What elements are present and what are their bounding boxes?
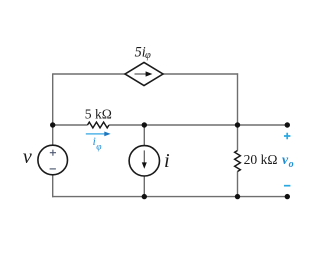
wire middle rail segment C to terminal xyxy=(238,124,288,126)
svg-text:φ: φ xyxy=(145,50,151,61)
wire middle rail segment B xyxy=(109,124,238,126)
wire top rail left segment xyxy=(53,73,125,75)
current arrow i_phi (cyan) shaft xyxy=(86,133,105,135)
node dot mid-mid xyxy=(142,122,147,127)
wire right vertical upper xyxy=(237,73,239,150)
svg-text:i: i xyxy=(93,136,96,148)
current source arrow head xyxy=(142,162,147,168)
voltage source plus sign xyxy=(50,150,56,156)
wire bottom rail xyxy=(52,196,287,198)
node dot right-mid xyxy=(235,122,240,127)
wire right vertical lower xyxy=(237,172,239,197)
wire middle vertical upper xyxy=(143,125,145,146)
svg-text:φ: φ xyxy=(96,142,101,152)
node dot right-bottom xyxy=(235,194,240,199)
dependent source arrow head xyxy=(146,71,153,76)
terminal minus (cyan) xyxy=(284,185,290,187)
voltage source V circle xyxy=(38,145,68,175)
node dot left-mid xyxy=(50,122,55,127)
wire left vertical upper xyxy=(52,73,54,145)
dependent source arrow shaft xyxy=(135,73,147,75)
svg-text:i: i xyxy=(164,150,170,172)
current arrow i_phi head xyxy=(104,132,110,137)
resistor 20k zigzag xyxy=(235,151,241,172)
wire middle rail segment A xyxy=(53,124,88,126)
node dot terminal-mid xyxy=(285,122,290,127)
wire middle vertical lower xyxy=(143,176,145,197)
voltage source minus sign xyxy=(50,168,56,170)
svg-text:20 kΩ: 20 kΩ xyxy=(244,152,278,167)
svg-text:v: v xyxy=(23,146,32,168)
terminal plus (cyan) xyxy=(284,133,290,139)
svg-text:5 kΩ: 5 kΩ xyxy=(85,107,112,122)
svg-text:o: o xyxy=(289,159,294,170)
wire left vertical lower xyxy=(52,175,54,198)
node dot terminal-bottom xyxy=(285,194,290,199)
wire top rail right segment xyxy=(163,73,238,75)
node dot mid-bottom xyxy=(142,194,147,199)
dependent source diamond U1 xyxy=(125,62,163,85)
resistor 5k zigzag xyxy=(88,122,109,128)
current source i circle xyxy=(129,146,159,176)
current source arrow shaft xyxy=(143,150,145,163)
